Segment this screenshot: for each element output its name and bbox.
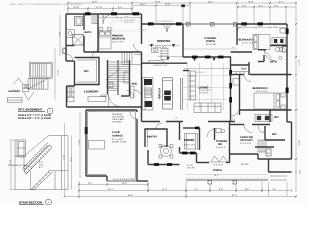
dining left wall [179,122,181,141]
svg-text:13'-2": 13'-2" [58,32,61,38]
hall wall [236,24,238,45]
porch left wall [182,24,184,57]
porch column 2 [233,181,237,185]
wic walls [75,58,100,85]
second floor line [49,170,68,172]
svg-text:35'-8": 35'-8" [128,194,134,197]
svg-text:23'-4": 23'-4" [78,140,81,146]
svg-text:6'-4": 6'-4" [88,182,92,185]
svg-text:STAIR SECTION: STAIR SECTION [19,201,42,205]
svg-text:20'-0 x 8'-0: 20'-0 x 8'-0 [206,43,217,46]
svg-text:MUD: MUD [132,83,138,86]
front wall bits near guest bottom [268,159,270,172]
svg-text:10'-10": 10'-10" [73,6,80,9]
svg-text:6'-0 x 8'-0: 6'-0 x 8'-0 [214,164,224,167]
top edge left [14,140,16,156]
opt door triangle upper [13,78,23,84]
living sofa [194,103,221,113]
svg-text:EATING: EATING [160,145,168,148]
svg-text:BATH: BATH [270,60,277,63]
left garage dim [79,112,81,178]
kitchen wall counter [143,78,153,111]
toilet room door arc [66,54,73,61]
primary bedroom bottom wall [84,51,142,53]
svg-text:16'-0": 16'-0" [122,182,128,185]
svg-text:7'-8": 7'-8" [272,188,276,191]
keeping window 1 [148,22,154,25]
svg-text:11'-4": 11'-4" [162,188,167,191]
opt door triangle lower [23,92,34,101]
svg-text:PANTRY: PANTRY [147,136,157,139]
bedroom3 bed [253,35,270,50]
bottom right wall [258,158,292,160]
svg-text:5'-0 x 5'-6: 5'-0 x 5'-6 [216,146,226,149]
eating window 2 [167,163,172,166]
pantry door [156,123,162,129]
svg-text:TRAY CLG: TRAY CLG [124,21,134,24]
entry double door [159,24,167,32]
porch post left [187,23,191,27]
svg-text:31'-4": 31'-4" [232,194,238,197]
bedroom2 door arc [244,75,251,82]
island sink [164,91,171,96]
hall wall above dining [142,121,161,123]
svg-text:OPT. BASEMENT: OPT. BASEMENT [18,108,43,112]
bedroom2 left wall [239,75,241,116]
svg-text:26'-0": 26'-0" [298,140,301,146]
svg-text:WIC: WIC [272,133,277,136]
wic door [92,51,99,58]
svg-text:5'-0": 5'-0" [274,4,278,7]
stair posts [30,171,32,190]
living beam grid [183,63,231,110]
svg-text:8'-8": 8'-8" [219,188,223,191]
eating table [161,146,172,157]
wic shelving [77,60,97,82]
keeping dim arrows [148,45,180,47]
kitchen half wall [180,78,182,110]
bottom right ext lines [268,182,270,197]
living top wall [183,56,231,58]
stair center rail [117,60,119,95]
guest door arc [244,125,252,133]
bottom extension lines [79,181,262,195]
garage top wall [86,109,137,111]
porch mid line [183,48,237,50]
svg-text:PORCH: PORCH [213,169,222,172]
primary interior dim string [99,17,141,19]
svg-text:12'-0 x 12'-6: 12'-0 x 12'-6 [184,144,196,147]
svg-text:WINDOW SEAT: WINDOW SEAT [153,64,168,67]
powder right wall [229,122,231,163]
svg-text:11'-4 x 11'-0: 11'-4 x 11'-0 [240,142,252,145]
top dimension line row 1 [68,2,296,5]
laundry counter [88,97,106,102]
right exterior wall lower [291,122,293,159]
svg-text:BEDROOM 3: BEDROOM 3 [239,39,255,42]
svg-text:CLO: CLO [241,68,246,71]
bath tub with X [73,35,84,46]
guest bottom wall [230,153,259,155]
eating window 1 [154,163,159,166]
bedroom2 top wall [231,74,245,76]
stair right wall [129,60,131,96]
stair left wall [107,60,109,95]
stair break line [106,69,120,80]
svg-text:SCALE 1/8" = 1'-0" @ 12x18: SCALE 1/8" = 1'-0" @ 12x18 [18,117,51,120]
garage inner wall line [88,112,136,180]
svg-text:WIC: WIC [84,70,89,73]
svg-text:11'-0 x 11'-8: 11'-0 x 11'-8 [242,42,254,45]
bedroom3 interior dim string [238,27,286,29]
top dimension line row 2 [68,4,296,10]
living wall segment [183,70,189,72]
bedroom3 door arc [237,24,247,34]
lin closet [233,79,240,86]
right dim ticks [295,24,298,172]
keeping step wall [141,14,143,24]
svg-text:24'-0": 24'-0" [208,0,214,3]
bath3 walls [255,146,274,148]
riser leader [23,165,32,167]
left dim [10,140,12,190]
svg-text:44'-8": 44'-8" [92,0,98,3]
bath2 vanity [272,38,286,45]
stair stringer lower [31,171,53,190]
kitchen ovens [145,101,153,107]
garage front step [106,176,108,181]
laundry bottom wall to garage [67,106,142,108]
svg-text:NOTE: TO BE 9'-0" CT. CLG/10 R: NOTE: TO BE 9'-0" CT. CLG/10 RATED CEILI… [10,3,84,6]
svg-text:WIC: WIC [274,116,279,119]
guest closet [258,140,266,152]
bath2 lin box [280,29,286,34]
svg-text:RM: RM [218,143,222,146]
primary bedroom left wall [97,14,99,52]
stringer hatch [24,146,50,173]
wic2 [264,126,266,140]
washer dryer [68,87,75,92]
pantry shelves [147,129,149,147]
bath2 door arc [264,50,275,61]
right wing top wall [237,23,287,25]
chimney box [17,140,26,157]
slash ticks bottom dims [64,184,298,198]
keeping left wall [141,24,143,44]
stair section outer box [15,136,68,190]
keeping door arc [134,44,142,52]
svg-text:TEXTURE: TEXTURE [112,121,122,124]
stair bottom wall [121,95,130,97]
svg-text:22'-4": 22'-4" [108,188,114,191]
svg-text:OR STUDY: OR STUDY [240,139,253,142]
svg-text:17'-1": 17'-1" [9,160,12,166]
primary bed [99,28,111,50]
opt stair lower flight [28,78,48,89]
svg-text:14'-4": 14'-4" [278,0,284,3]
dining table [185,134,198,150]
keeping window 2 [176,22,182,25]
foyer door arc [207,128,216,137]
garage side window [85,127,88,134]
porch post mid [211,23,215,27]
svg-text:41'-4": 41'-4" [298,60,301,66]
front door swings [211,156,220,162]
keeping fireplace [161,49,168,60]
mud door arcs [134,90,142,98]
svg-text:LAUNDRY: LAUNDRY [8,90,20,93]
interior dim arrows [158,56,183,58]
bath3 shower [266,149,271,156]
window primary 1 [85,12,91,15]
foyer bottom wall [197,162,210,164]
circle 2 [47,108,53,114]
living dim line [184,68,230,70]
svg-text:BEDROOM 2: BEDROOM 2 [253,87,269,90]
tray ceiling [112,21,140,31]
right dim [71,136,73,190]
svg-text:17'-4": 17'-4" [62,155,65,161]
bedroom3 window 1 [242,22,248,25]
svg-text:LAUNDRY: LAUNDRY [84,90,99,94]
opt dim line [54,48,56,100]
foyer right wall [214,128,216,140]
garage left wall [85,110,87,176]
porch post right [234,23,238,27]
svg-text:5'-10 x 7'-4: 5'-10 x 7'-4 [86,110,97,113]
svg-text:BEDROOM: BEDROOM [112,38,125,41]
bedroom2 bottom wall [240,109,292,111]
stair label box [107,83,113,88]
porch slab [186,179,268,181]
garage right wall [136,110,138,112]
linen closet [92,14,98,24]
mud bench [131,86,135,98]
extension lines from top dims to walls [68,5,296,193]
bath2 toilet [280,48,283,52]
lower stringer hatch [33,172,50,189]
dining bay wall [180,152,197,154]
svg-text:SLOPE TO DR: SLOPE TO DR [112,141,126,144]
wic1 walls [269,110,271,122]
svg-text:13'-8": 13'-8" [165,3,171,6]
bedroom3 window 2 [258,22,264,25]
bottom dim row 1 [79,183,148,186]
bath3 vanity [255,115,272,122]
svg-text:12'-0 CLG: 12'-0 CLG [199,92,209,95]
opt cabinets [7,98,22,103]
svg-text:10'-4": 10'-4" [258,4,264,7]
window seat [149,60,163,63]
svg-text:WC 36x: WC 36x [241,163,249,166]
powder fixtures [216,129,221,133]
kitchen island [163,78,173,109]
door arcs bottom right [258,126,265,133]
dining top wall [183,127,199,129]
bath2 walls [270,45,287,47]
svg-text:40'-0": 40'-0" [155,0,161,3]
eating bottom wall [148,164,180,166]
porch column 1 [208,181,212,185]
opt washer dryer [23,85,29,88]
kitchen wall to mud [141,65,143,108]
svg-text:12'-4": 12'-4" [56,70,59,76]
svg-text:DINING: DINING [184,138,195,142]
svg-text:9'-4": 9'-4" [118,6,122,9]
svg-text:16'-0": 16'-0" [248,0,254,3]
svg-text:PORCH: PORCH [206,40,215,43]
window primary 2 [111,12,117,15]
stair treads right flight [119,62,130,83]
covered porch top edge [183,23,237,25]
eating left wall [147,150,149,165]
clo room walls [230,64,249,66]
guest top wall [230,124,245,126]
bedroom3 bottom wall [231,51,253,53]
bath vanity [66,30,75,38]
svg-text:5'-8": 5'-8" [242,4,246,7]
bath2 shower [283,47,288,53]
svg-text:8'-1": 8'-1" [39,166,43,169]
primary wing top wall [66,13,142,15]
svg-text:LIVING: LIVING [199,85,210,89]
living right wall [230,57,232,122]
post marker top [181,5,185,8]
bedroom2 bed [254,93,285,109]
primary wing left wall [65,14,67,61]
stair treads left flight [108,62,118,91]
living window 2 [205,56,211,59]
laundry left wall [74,61,76,86]
svg-text:CLG HT: CLG HT [187,167,195,170]
svg-text:BATH: BATH [85,31,92,34]
living right windows [229,70,232,76]
pantry walls [145,129,167,147]
right wall step [287,121,292,123]
right wall window 1 [286,29,289,35]
garage storage [89,141,105,150]
left primary dim [59,15,61,56]
living window 1 [192,56,198,59]
keeping bottom wall [142,62,188,64]
jog wall [66,60,75,62]
garage door wall [107,180,148,182]
hall door arc bottom [231,108,240,117]
primary closet [122,52,142,65]
svg-text:16'-0 x 8'-0 O.H. DOOR: 16'-0 x 8'-0 O.H. DOOR [113,178,135,181]
kitchen fridge [144,79,152,85]
clo hatch [232,71,248,73]
opt stair box [29,62,52,78]
kitchen range burners [145,88,152,97]
living buffet column [189,71,196,100]
keeping cabinet [152,48,159,53]
stoop lines [270,175,287,177]
primary door arc [103,14,113,24]
svg-text:11'-10": 11'-10" [96,6,103,9]
svg-text:KITCHEN: KITCHEN [158,88,161,99]
keeping top wall [142,23,184,25]
svg-text:15'-0 DBL FR DR: 15'-0 DBL FR DR [157,20,173,23]
foyer left wall [199,128,201,150]
circle 3 [46,199,52,205]
garage door arc [130,112,137,119]
bath interior walls [83,14,85,30]
svg-text:18'-0 CLG: 18'-0 CLG [196,71,205,74]
window primary 3 [133,12,140,15]
stair door arc [109,95,121,107]
right exterior wall upper [286,24,288,122]
right wall window 2 [286,88,289,94]
svg-text:GARAGE: GARAGE [112,135,123,138]
bath2 sink [279,57,282,60]
svg-text:SH: SH [267,152,270,155]
svg-text:8'-8": 8'-8" [245,188,249,191]
bath shower [75,17,83,26]
svg-text:7'-0": 7'-0" [194,188,198,191]
svg-text:KEEPING: KEEPING [157,39,171,43]
svg-text:13'-0 x 16'-0: 13'-0 x 16'-0 [112,41,124,44]
garage bottom wall left [86,175,107,177]
mid dims vertical [64,123,66,197]
svg-text:9'-1": 9'-1" [70,158,73,162]
bottom dim row 2 [79,189,292,192]
svg-text:9'-0": 9'-0" [298,170,301,174]
stair stringer upper [23,143,53,175]
toilet room [63,48,67,54]
slash ticks top dims [67,2,297,10]
living window 3 [218,56,224,59]
laundry notch wall [67,85,75,87]
bottom dim row 3 [65,195,297,198]
svg-text:12'-0 x 11'-6: 12'-0 x 11'-6 [256,90,268,93]
svg-text:16'-6": 16'-6" [140,3,146,6]
